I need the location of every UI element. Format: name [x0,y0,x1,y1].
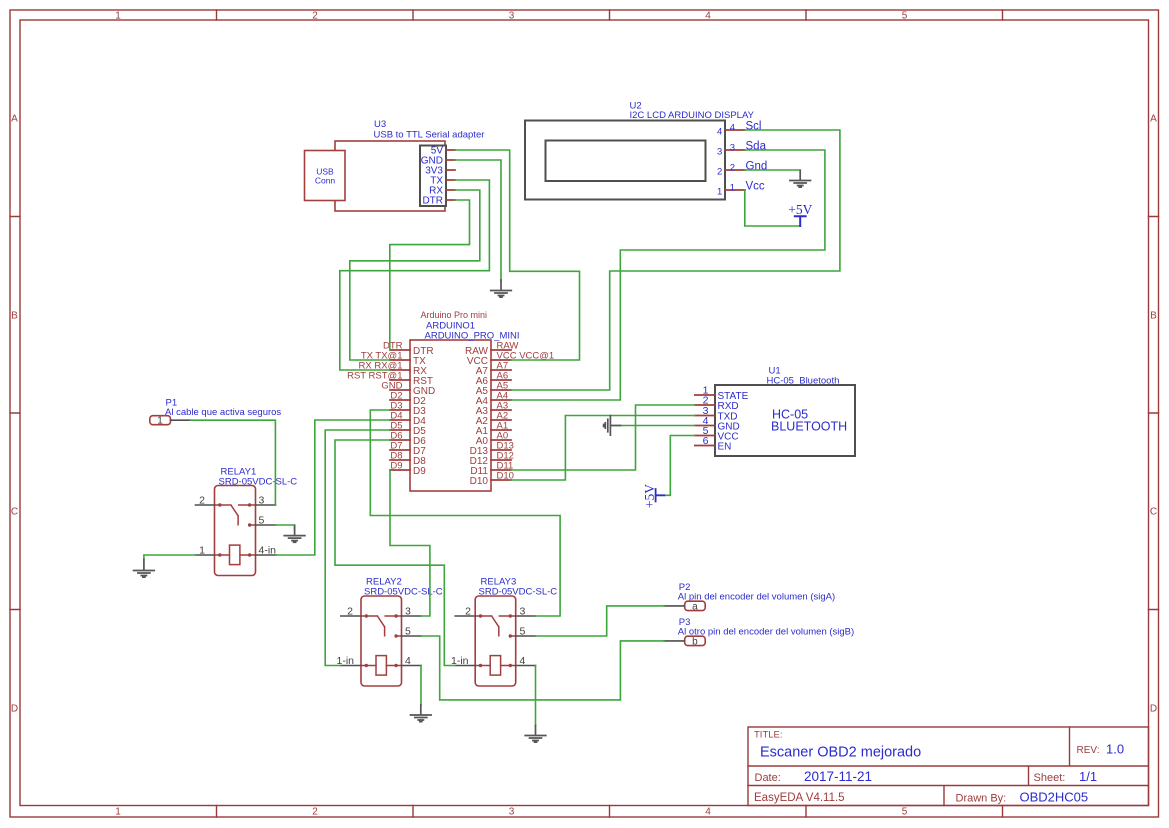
svg-text:B: B [1150,311,1157,322]
svg-text:2: 2 [199,495,205,507]
svg-text:3: 3 [259,495,265,507]
svg-text:A: A [11,114,18,125]
svg-text:5: 5 [259,515,265,527]
wire U1 TXD to ARDUINO1 D10 [511,416,695,481]
ground below RELAY3 pin4 [525,726,546,743]
svg-text:2: 2 [312,11,318,22]
svg-text:2: 2 [465,606,471,618]
svg-text:D: D [11,704,18,715]
ARDUINO1 left pin stubs [390,350,410,470]
svg-text:4: 4 [520,655,526,667]
wire P1 to RELAY1 pin3 [190,420,275,505]
svg-text:USB to TTL Serial adapter: USB to TTL Serial adapter [374,130,485,141]
relay RELAY1 SRD-05VDC-SL-C [196,467,298,576]
wire RELAY3 pin5 to P2 [536,606,665,636]
title block [748,727,1149,806]
ground below U3 GND [491,280,512,297]
ARDUINO1 right net labels [497,341,555,482]
svg-text:Conn: Conn [315,176,336,186]
svg-text:A: A [1150,114,1157,125]
svg-text:2: 2 [717,166,722,177]
svg-text:4: 4 [705,807,711,818]
svg-text:C: C [1150,507,1157,518]
wire U3 DTR to ARDUINO1 DTR [390,200,470,350]
wire ARDUINO1 D4 to RELAY1 pin4-in [276,420,390,555]
svg-text:EN: EN [718,442,732,453]
module U1 HC-05 Bluetooth [695,366,855,457]
svg-text:Al cable que activa seguros: Al cable que activa seguros [165,407,281,418]
wire ARDUINO1 D6 to RELAY3 pin1-in [335,440,455,666]
svg-text:B: B [11,311,18,322]
svg-text:3: 3 [405,606,411,618]
wire RELAY3 pin4 to ground [535,666,537,726]
svg-text:3: 3 [520,606,526,618]
display U2 I2C LCD ARDUINO DISPLAY [525,101,767,200]
svg-text:1/1: 1/1 [1079,769,1097,784]
connector P3 Al otro pin del encoder del volumen (sigB) [664,617,854,647]
ARDUINO1 right pin stubs [491,350,511,480]
wire U2 Sda to ARDUINO1 A4 [511,150,825,400]
wire U1 GND to ground [621,425,695,427]
wire U2 Gnd to ground [745,169,800,171]
svg-text:6: 6 [703,435,709,447]
svg-text:Arduino Pro mini: Arduino Pro mini [421,310,488,320]
wire U3 5V to ARDUINO1 VCC [455,150,580,360]
wire RELAY2 pin4 to ground [420,666,422,706]
wire RELAY1 pin1 to ground [144,555,196,560]
connector P1 Al cable que activa seguros [150,398,282,427]
relay RELAY2 SRD-05VDC-SL-C [336,577,442,687]
wire U3 TX to ARDUINO1 RX [340,180,490,370]
relay RELAY3 SRD-05VDC-SL-C [451,577,557,687]
wire U2 Vcc to +5V [745,190,800,226]
svg-text:1: 1 [115,11,121,22]
svg-text:1: 1 [115,807,121,818]
wire RELAY1 pin5 to ground [276,525,295,530]
svg-text:U3: U3 [374,119,386,130]
svg-text:3: 3 [717,146,722,157]
svg-text:3: 3 [509,807,515,818]
svg-text:2: 2 [312,807,318,818]
svg-text:EasyEDA V4.11.5: EasyEDA V4.11.5 [754,792,845,804]
svg-text:Sheet:: Sheet: [1034,772,1066,784]
wire U3 RX to ARDUINO1 TX [350,190,480,360]
svg-text:+5V: +5V [788,202,812,217]
U1 pin stubs [695,395,715,446]
svg-text:5: 5 [405,626,411,638]
wire U1 VCC to +5V [664,436,695,496]
svg-text:I2C LCD ARDUINO DISPLAY: I2C LCD ARDUINO DISPLAY [630,110,755,121]
ground below RELAY2 pin4 [411,705,432,722]
svg-text:HC-05_Bluetooth: HC-05_Bluetooth [767,376,840,387]
power +5V near U1 [642,484,664,508]
svg-text:REV:: REV: [1077,745,1100,756]
U2 pin stubs [725,130,745,190]
ground below RELAY1 pin1 [134,560,155,578]
RELAY1 pin stubs [196,505,276,555]
svg-text:a: a [692,601,698,612]
svg-text:OBD2HC05: OBD2HC05 [1020,790,1089,805]
svg-text:3: 3 [730,143,735,154]
svg-text:1: 1 [199,545,205,557]
svg-text:C: C [11,507,18,518]
svg-text:Escaner OBD2 mejorado: Escaner OBD2 mejorado [760,745,921,761]
svg-text:Drawn By:: Drawn By: [956,793,1007,805]
svg-text:2: 2 [730,163,735,174]
svg-text:Vcc: Vcc [746,180,765,192]
wire U3 GND to ground [455,160,501,281]
svg-text:BLUETOOTH: BLUETOOTH [771,420,847,434]
svg-text:5: 5 [902,11,908,22]
svg-text:b: b [692,636,698,647]
wire ARDUINO1 D9 to RELAY2 pin3 [390,470,430,616]
ground below RELAY1 pin5 [284,526,305,543]
svg-text:DTR: DTR [422,196,443,207]
ground at U1 GND (rotated) [604,416,621,436]
U3 pin stubs [446,150,455,200]
svg-text:TITLE:: TITLE: [754,730,783,741]
svg-text:1.0: 1.0 [1106,742,1124,757]
svg-text:1: 1 [157,416,163,427]
connector U3 USB to TTL Serial adapter [305,119,485,211]
svg-text:4: 4 [405,655,411,667]
svg-text:D10: D10 [470,476,489,487]
connector P2 Al pin del encoder del volumen (sigA) [664,582,835,612]
svg-text:4: 4 [717,126,722,137]
svg-text:1: 1 [730,183,735,194]
ground at U2 Gnd [790,171,811,188]
RELAY2 pin stubs [341,616,421,666]
ARDUINO1 left net labels [347,341,403,472]
svg-text:1: 1 [717,186,722,197]
svg-text:5: 5 [902,807,908,818]
svg-text:4: 4 [730,123,735,134]
wire ARDUINO1 D5 to RELAY2 pin1-in [325,430,390,666]
power +5V near U2 [788,202,812,226]
svg-text:2: 2 [347,606,353,618]
svg-text:4-in: 4-in [259,545,277,557]
svg-text:D: D [1150,704,1157,715]
svg-text:2017-11-21: 2017-11-21 [804,769,872,784]
svg-text:3: 3 [509,11,515,22]
svg-text:5: 5 [520,626,526,638]
wire U2 Scl to ARDUINO1 A5 [511,130,840,390]
svg-text:D9: D9 [413,466,426,477]
svg-text:D9: D9 [390,461,402,472]
wire U1 RXD to ARDUINO1 D11 [511,405,695,470]
svg-text:RXD: RXD [718,401,739,412]
RELAY3 pin stubs [455,616,535,666]
svg-text:Date:: Date: [755,772,781,784]
svg-text:4: 4 [705,11,711,22]
wire RELAY2 pin5 to P3 [421,636,664,700]
mcu ARDUINO1 ARDUINO_PRO_MINI [347,310,554,491]
wire ARDUINO1 D3 to RELAY3 pin3 [370,410,560,616]
